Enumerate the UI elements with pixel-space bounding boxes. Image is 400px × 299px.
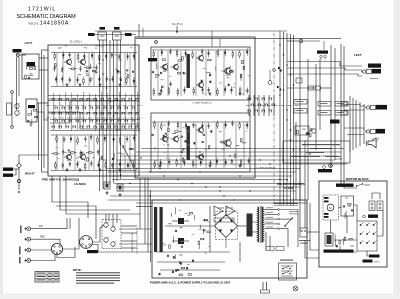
parts row tone L bottom row L: [153, 87, 185, 97]
switch contact S1-61: [122, 126, 126, 128]
ground G2: [78, 83, 81, 86]
bias trap cluster: [295, 126, 309, 135]
wire top bus drop: [323, 41, 325, 50]
node circle top: [11, 91, 14, 94]
node diamond: [17, 163, 22, 168]
wire heads up 4: [116, 214, 118, 223]
junction bus A4: [109, 101, 111, 103]
switch contact S1-16: [69, 107, 73, 109]
wire right vertical 10: [352, 98, 354, 150]
switch contact S1-55: [80, 126, 84, 128]
svg-text:REC: REC: [40, 236, 45, 239]
power transformer secondary: [262, 207, 263, 242]
junction dot 1: [154, 148, 155, 149]
heatsink column 1: [154, 207, 157, 252]
preamp L rail top: [51, 52, 137, 54]
wire head h4: [121, 247, 137, 249]
wire right vertical 9: [349, 96, 351, 152]
wire preamp L vert 2: [62, 53, 64, 86]
ground G4: [118, 83, 121, 86]
wire switch9 vertical 3: [258, 95, 260, 116]
junction mid B6: [205, 186, 206, 187]
junction dot 29: [293, 84, 294, 85]
label speckle power labels: [163, 210, 211, 265]
label speckle preamp R labels: [56, 139, 124, 162]
svg-text:POWER AMP, B.S.C. & POWER SUPP: POWER AMP, B.S.C. & POWER SUPPLY P.C.BOA…: [150, 281, 231, 285]
wire right vertical 7: [340, 44, 342, 181]
wire right vertical 8: [343, 46, 345, 181]
switch contact S1-2: [59, 99, 63, 101]
heatsink column 2: [160, 207, 163, 252]
wire head bus 2: [92, 245, 120, 253]
parts row preamp R bottom row: [55, 161, 134, 171]
switch contact S9-9: [248, 110, 252, 112]
wire lower-left to preamp: [13, 168, 19, 170]
junction mid B4: [177, 179, 178, 180]
matrix contact 3: [373, 224, 375, 226]
wire top bus 1: [88, 34, 136, 36]
AC outlet symbol: [300, 228, 307, 237]
wire top bus 3: [136, 38, 341, 40]
wire power vert 1: [209, 206, 211, 252]
label POWER SW: [280, 260, 293, 261]
wire tone R vert 7: [223, 123, 225, 168]
wire vertical bus A7: [120, 40, 122, 179]
wire left feed 3: [38, 103, 40, 160]
switch contact S1-46: [104, 120, 108, 122]
switch weave h5: [50, 119, 140, 121]
power transistor Q10: [178, 218, 184, 224]
switch weave 2: [48, 112, 140, 129]
label MIC AMP: [27, 62, 36, 67]
label J BOARD: [87, 250, 98, 253]
parts row tone L top row R: [192, 48, 248, 59]
switch arm diagonal: [123, 146, 134, 167]
wire switch vertical 4: [71, 93, 73, 131]
junction dot 18: [102, 59, 103, 60]
wire tap run 1: [280, 210, 299, 248]
junction dot 19: [109, 79, 110, 80]
switch box small b: [341, 111, 347, 115]
speaker SP1: [368, 138, 376, 148]
wire transformer tap 5: [265, 228, 278, 230]
motor mid circle: [363, 215, 366, 218]
label ERASE HEAD: [317, 51, 328, 54]
junction bus A7: [120, 143, 122, 145]
voltage table: [35, 272, 59, 283]
wire motor feed 2: [310, 203, 319, 250]
wire head top link 2: [78, 218, 80, 249]
bus B dashed: [273, 33, 275, 204]
wire vertical bus A1: [99, 40, 101, 191]
wire vertical bus B1: [279, 31, 281, 205]
wire bridge top: [225, 207, 227, 215]
junction bus B1: [279, 69, 281, 71]
switch contact S1-21: [104, 107, 108, 109]
parts row preamp R top row: [56, 134, 135, 145]
tape heads dashed box: [102, 220, 121, 249]
switch contact S1-24: [125, 107, 129, 109]
wire mid bundle A5: [110, 163, 347, 165]
wire tone L vert 2: [167, 51, 169, 96]
wire preamp R vert 2: [62, 136, 64, 170]
svg-text:NOTE:: NOTE:: [73, 268, 82, 272]
switch contact S1-30: [80, 113, 84, 115]
junction dot 2: [199, 151, 200, 152]
switch contact S1-62: [129, 126, 133, 128]
decoupling cap block 2: [117, 184, 123, 191]
wire power low horiz: [157, 251, 230, 253]
wire mid bundle B1: [107, 168, 300, 170]
mic amp board box: [22, 54, 39, 79]
junction dot 9: [159, 168, 160, 169]
component cluster mic amp parts: [25, 66, 36, 79]
switch contact S1-38: [136, 113, 140, 115]
power transistor Q11: [178, 238, 184, 244]
wire preamp L vert 4: [88, 53, 90, 86]
power transformer primary: [258, 207, 259, 242]
power switch box: [279, 263, 297, 280]
motor block wires: [339, 207, 342, 209]
ground G1: [65, 83, 68, 86]
wire tone R vert 5: [205, 123, 207, 168]
parts row tone L bottom row R: [193, 86, 249, 96]
fuse box F1: [308, 86, 314, 90]
svg-text:1721W/L: 1721W/L: [28, 7, 56, 13]
junction dot 22: [113, 139, 114, 140]
wire switch9 vertical 6: [273, 95, 275, 116]
svg-text:PRE AMP P.C.BOARD(1): PRE AMP P.C.BOARD(1): [277, 183, 305, 186]
svg-text:MOTOR BLOCK: MOTOR BLOCK: [346, 177, 369, 181]
svg-text:LEFT: LEFT: [25, 41, 33, 45]
junction dot 33: [283, 159, 284, 160]
wire tone R vert 9: [243, 123, 245, 168]
ground G10R: [208, 164, 211, 167]
motor pin labels: [324, 197, 329, 199]
wire left feed 2: [43, 55, 45, 168]
wire head h1: [121, 225, 137, 227]
switch contact S1-20: [97, 107, 101, 109]
component cluster preamp R resistors mid: [68, 148, 134, 161]
switch weave h7: [50, 130, 140, 132]
switch box row 2: [318, 102, 331, 107]
wire right vertical 2: [307, 59, 309, 200]
wire tone R vert 8: [235, 123, 237, 168]
bus cap marks 1: [278, 67, 280, 69]
wire switch9 vertical 1: [248, 95, 250, 116]
label on board 2: [28, 105, 35, 108]
fuse box F2: [315, 86, 321, 90]
wire P3 right: [33, 249, 52, 251]
switch contact S1-42: [76, 120, 80, 122]
junction bus A5: [113, 115, 115, 117]
wire mid bundle A2: [136, 151, 341, 153]
ground G8: [118, 168, 121, 171]
wire tone R vert 1: [157, 123, 159, 168]
label speckle preamp L labels: [61, 55, 128, 79]
wire left vertical 1: [16, 57, 18, 110]
wire vertical bus B5: [293, 35, 295, 205]
switch contact S9-7: [265, 104, 269, 106]
ground G12: [105, 191, 108, 194]
wire mid bundle B6: [116, 186, 300, 188]
svg-text:PRE AMP P.C. BOARDS(2): PRE AMP P.C. BOARDS(2): [42, 178, 79, 182]
motor bottom label 2: [363, 260, 373, 263]
wire power vert 2: [239, 242, 241, 262]
parts row tone R top row: [154, 121, 187, 131]
switch contact S1-33: [101, 113, 105, 115]
wire top to tone board: [138, 24, 140, 37]
switch contact S1-59: [108, 126, 112, 128]
bias osc triangle 2: [226, 206, 235, 216]
wire mid bundle A4: [116, 159, 335, 161]
jack JK3: [365, 129, 385, 134]
wire vertical bus A4: [109, 40, 111, 185]
junction dot 28: [290, 74, 291, 75]
label AUTOMATIC SHUT OFF SW: [324, 250, 354, 253]
transistor Q5L: [160, 63, 168, 70]
connector phono jack P2: [25, 237, 33, 241]
hanging lamp: [269, 70, 271, 81]
wire vertical bus B3: [286, 33, 288, 205]
parts row tone R top row R: [192, 120, 248, 129]
svg-text:LS-5208: LS-5208: [284, 187, 294, 190]
info box divider: [299, 141, 301, 163]
junction dot 23: [99, 159, 100, 160]
junction mid B9: [233, 199, 234, 200]
transistor Q4: [78, 153, 86, 160]
transistor Q9R: [222, 139, 232, 148]
wire left feed top: [42, 49, 49, 51]
wire right drop 1: [295, 122, 297, 200]
test point circle: [155, 41, 158, 44]
wire preamp L vert 7: [129, 53, 131, 86]
wire tone R vert 3: [180, 123, 182, 168]
jack JK1: [361, 69, 381, 74]
ground G6: [78, 168, 81, 171]
transistor Q1: [64, 58, 72, 65]
pilot lamp PL: [293, 286, 298, 291]
junction mid B3: [163, 175, 164, 176]
wire bridge left: [196, 225, 215, 227]
junction dot 21: [106, 119, 107, 120]
wire switch9 vertical 2: [253, 95, 255, 116]
label CHASSIS: [318, 169, 332, 172]
wire preamp R vert 7: [129, 136, 131, 170]
wire switch vertical 8: [95, 94, 97, 131]
wire switch vertical 11: [113, 94, 115, 128]
component cluster diode row: [159, 256, 194, 275]
wire right vertical 12: [359, 102, 361, 146]
motor mid label: [368, 215, 378, 218]
switch contact S1-53: [66, 126, 70, 128]
wire transformer tap 2: [265, 213, 278, 215]
label speckle tone R labels: [155, 125, 248, 166]
wire bridge right: [238, 225, 247, 227]
switch contact S1-27: [59, 113, 63, 115]
transistor Q8L: [196, 81, 204, 88]
parts row tone R bottom row R: [192, 158, 250, 168]
wire track sel right 2: [119, 243, 152, 245]
wire switch vertical 6: [83, 92, 85, 129]
wire transformer tap 1: [265, 209, 278, 211]
switch weave 1: [48, 99, 140, 124]
parts row preamp R mid row: [51, 149, 99, 156]
ground G11R: [238, 164, 241, 167]
switch contact S1-26: [52, 113, 56, 115]
wire switch vertical 7: [89, 93, 91, 128]
tape head H4: [111, 226, 116, 232]
junction dot 11: [239, 175, 240, 176]
vertical label TAPE OUT: [20, 226, 21, 234]
junction mid B1: [136, 168, 137, 169]
motor bottom label 1: [369, 255, 380, 258]
junction dot 32: [290, 139, 291, 140]
wire preamp L vert 1: [56, 53, 58, 86]
tone L rail: [152, 49, 249, 51]
switch contact S1-23: [118, 107, 122, 109]
junction mid B5: [191, 183, 192, 184]
DIN connector J4: [80, 236, 93, 249]
switch contact S1-15: [62, 107, 66, 109]
switch contact S1-56: [87, 126, 91, 128]
connector phono jack P4: [25, 259, 33, 263]
wire mid bundle B3: [110, 175, 292, 177]
power board outline: [152, 200, 307, 278]
switch contact S1-34: [108, 113, 112, 115]
tone R rail: [152, 121, 249, 123]
power transformer label: [274, 203, 298, 204]
decoupling cap block 1: [104, 182, 110, 189]
switch contact S1-6: [87, 99, 91, 101]
bias osc triangle 1: [214, 206, 223, 216]
svg-text:R-OUT: R-OUT: [335, 158, 343, 161]
matrix contact 1: [360, 224, 362, 226]
switch contact S1-37: [129, 113, 133, 115]
switch box row 3: [335, 102, 348, 107]
wire mid bundle B7: [118, 190, 296, 192]
label LINE IN (lower): [2, 168, 13, 171]
wire P4 right: [33, 255, 55, 261]
wire tone L vert 1: [157, 51, 159, 96]
wire mid bundle A3: [120, 155, 338, 157]
wire tone L vert 3: [180, 51, 182, 96]
junction dot 34: [286, 179, 287, 180]
info box text 4: [290, 156, 320, 157]
wire tone L vert 8: [235, 51, 237, 96]
governor box: [341, 196, 354, 216]
wire lower-left vert: [18, 168, 20, 190]
wire power mid horiz: [165, 225, 196, 227]
motor top wires: [340, 181, 342, 184]
wire jk3 a: [344, 128, 364, 130]
switch weave h4: [48, 112, 138, 114]
wire cap to transformer: [253, 221, 258, 223]
wire ac to motor: [307, 231, 319, 233]
edge shade bottom: [0, 294, 400, 299]
wire right vertical 3: [315, 64, 317, 150]
wire vertical bus B2: [283, 32, 285, 205]
info box: [283, 141, 350, 163]
wire top drop 212: [211, 31, 213, 47]
motor dashed box: [323, 195, 339, 220]
parts row preamp L top row: [54, 51, 135, 61]
component cluster tone L parts right: [201, 59, 245, 86]
tape head H3: [104, 222, 109, 228]
wire mid drop 4: [150, 190, 152, 262]
wire lower-left horiz2: [13, 169, 16, 175]
switch contact S1-29: [73, 113, 77, 115]
switch contact S1-4: [73, 99, 77, 101]
junction dot 10: [199, 171, 200, 172]
junction bus A2: [102, 73, 104, 75]
switch contact S1-45: [97, 120, 101, 122]
wire out1 c: [287, 74, 362, 76]
wire tone L vert 6: [215, 51, 217, 96]
switch contact S1-36: [122, 113, 126, 115]
wire preamp L vert 6: [124, 53, 126, 86]
wire switch vertical 12: [119, 92, 121, 131]
voltage selector arm: [285, 217, 293, 226]
tape head H5: [104, 237, 109, 243]
switch contact S1-19: [90, 107, 94, 109]
switch contact S1-10: [115, 99, 119, 101]
connector phono jack P3: [25, 248, 33, 252]
wire head vertical: [11, 93, 13, 126]
speed switch contacts: [356, 183, 370, 186]
svg-text:D.L (P.U.): D.L (P.U.): [172, 22, 183, 26]
wire switch9 vertical 5: [268, 95, 270, 116]
junction dot 30: [279, 94, 280, 95]
switch contact S1-13: [136, 99, 140, 101]
switch contact S1-14: [55, 107, 59, 109]
wire mid bundle B4: [112, 179, 288, 181]
label AC 120V: [259, 297, 271, 298]
transistor Q7R: [196, 126, 204, 133]
junction dot 24: [120, 174, 121, 175]
transistor Q6L: [171, 63, 179, 70]
wire mid bundle B8: [110, 195, 290, 197]
arrow down: [176, 26, 178, 33]
label LINE IN: [13, 49, 22, 53]
switch contact S1-35: [115, 113, 119, 115]
ground G3: [98, 83, 101, 86]
wire vertical bus A3: [106, 40, 108, 187]
wire under preamp 1: [60, 209, 130, 211]
wire left feed bot: [42, 171, 49, 173]
wire switch vertical 9: [101, 92, 103, 130]
switch box row 1: [294, 100, 307, 105]
junction dot 31: [286, 119, 287, 120]
ground G5: [65, 168, 68, 171]
junction mid B7: [219, 190, 220, 191]
junction dot 27: [286, 64, 287, 65]
switch contact S9-10: [255, 110, 259, 112]
bus diamond node: [272, 68, 276, 72]
wire heads up 1: [105, 214, 107, 223]
connector phono jack P1: [25, 227, 33, 231]
small box right mid: [296, 78, 302, 83]
wire right vertical 11: [355, 100, 357, 148]
junction mid B8: [223, 195, 224, 196]
junction dot 20: [116, 99, 117, 100]
wire top bus 2: [95, 30, 287, 32]
preamp R rail bottom: [51, 170, 137, 172]
wire jk2 b: [344, 109, 365, 111]
switch contact S9-4: [269, 98, 273, 100]
tape head H1: [15, 103, 20, 109]
info box text 5: [325, 156, 341, 157]
